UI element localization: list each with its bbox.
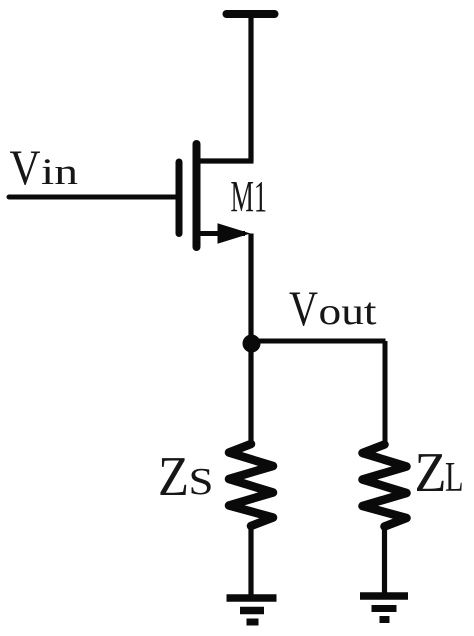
ground symbol ZS: bar 2: [240, 607, 264, 615]
svg-text:M1: M1: [231, 172, 268, 221]
wire: source horizontal stub: [197, 231, 246, 236]
wire: power rail down to drain corner: [248, 14, 253, 161]
svg-text:in: in: [41, 152, 78, 193]
svg-text:Z: Z: [415, 442, 447, 504]
wire: gate input from Vin: [9, 195, 176, 200]
ground symbol ZL: bar 3: [380, 616, 390, 623]
resistor ZL zigzag: [363, 445, 407, 527]
svg-text:V: V: [289, 280, 318, 336]
wire: ZS to ground: [248, 526, 253, 598]
resistor ZS zigzag: [229, 444, 273, 526]
svg-text:S: S: [189, 461, 214, 503]
wire: ZL to ground: [382, 526, 387, 596]
transistor M1 source arrow: [218, 223, 251, 244]
wire: source down to output node: [248, 234, 253, 345]
svg-text:L: L: [445, 455, 464, 501]
wire: down to resistor ZL: [383, 341, 388, 446]
svg-text:out: out: [319, 291, 378, 333]
wire: node down to resistor ZS: [248, 344, 253, 445]
ground symbol ZL: bar 1: [360, 592, 408, 600]
wire: drain horizontal: [196, 158, 254, 163]
junction node dot (Vout): [243, 335, 261, 353]
transistor M1 gate bar: [176, 162, 183, 234]
ground symbol ZL: bar 2: [372, 605, 397, 612]
ground symbol ZS: bar 1: [227, 594, 277, 602]
wire: node to ZL horizontal: [251, 339, 386, 344]
ground symbol ZS: bar 3: [247, 619, 259, 626]
svg-text:Z: Z: [158, 446, 189, 508]
svg-text:V: V: [10, 139, 41, 195]
transistor M1 channel bar: [193, 144, 201, 247]
power rail bar: [227, 10, 275, 18]
